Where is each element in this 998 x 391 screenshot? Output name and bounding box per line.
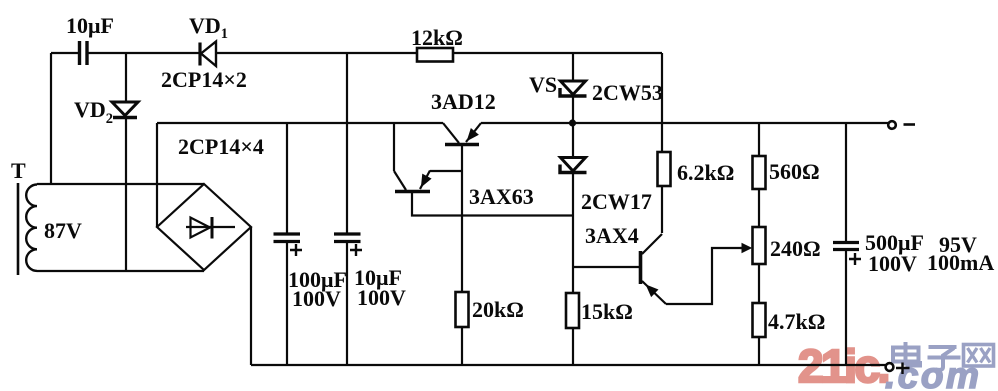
diode VD2 bbox=[112, 102, 138, 118]
wire second bus right segment bbox=[481, 122, 890, 124]
wire zener 2CW17 to base node bbox=[572, 173, 574, 293]
wire 4.7k to bottom bus bbox=[758, 337, 760, 365]
wire bus corner to bridge left bbox=[156, 123, 158, 227]
wire cap10 vertical top bbox=[346, 53, 348, 233]
wire cap10 bottom bbox=[346, 243, 348, 365]
svg-text:6.2kΩ: 6.2kΩ bbox=[677, 160, 734, 185]
potentiometer 240 bbox=[753, 227, 766, 264]
svg-text:240Ω: 240Ω bbox=[770, 236, 821, 261]
wire 3AD12 base down to 20k bbox=[461, 145, 463, 292]
wire 15k to bottom bus bbox=[572, 328, 574, 365]
wire cap100 top bbox=[286, 123, 288, 233]
svg-text:3AD12: 3AD12 bbox=[431, 89, 496, 114]
plus sign bbox=[896, 363, 910, 375]
wire 20k to bottom bus bbox=[461, 327, 463, 365]
svg-text:100V: 100V bbox=[868, 251, 917, 276]
wire 3AX4 emitter path bbox=[666, 248, 746, 304]
wire bottom bus bbox=[251, 364, 890, 366]
watermark char 电 bbox=[893, 342, 920, 366]
svg-text:100V: 100V bbox=[292, 286, 341, 311]
resistor 4.7k bbox=[753, 303, 766, 337]
zener VS 2CW53 bbox=[560, 81, 587, 96]
svg-text:4.7kΩ: 4.7kΩ bbox=[768, 309, 825, 334]
bridge rectifier 2CP14x4 bbox=[157, 184, 251, 270]
svg-text:10μF: 10μF bbox=[66, 13, 114, 38]
watermark char 网 bbox=[964, 345, 994, 367]
capacitor 500uF plus bbox=[849, 253, 861, 265]
capacitor 100uF plus bbox=[290, 244, 302, 256]
svg-text:100mA: 100mA bbox=[927, 250, 994, 275]
svg-text:12kΩ: 12kΩ bbox=[411, 25, 463, 50]
wire 560 to 240 pot bbox=[758, 189, 760, 227]
resistor 15k bbox=[566, 293, 579, 328]
resistor 12k bbox=[417, 48, 453, 62]
wire 3AX63 collector vertical bbox=[393, 123, 395, 171]
wire top bus left bbox=[51, 52, 78, 54]
junction dot bbox=[569, 119, 576, 126]
resistor 560 bbox=[753, 156, 766, 189]
capacitor 500uF plates bbox=[833, 243, 859, 250]
svg-text:2CP14×4: 2CP14×4 bbox=[178, 134, 264, 159]
resistor 6.2k bbox=[658, 152, 671, 186]
transistor Q1 3AD12 bbox=[443, 123, 481, 145]
resistor 20k bbox=[456, 292, 469, 327]
wire 500uF top bbox=[845, 124, 847, 242]
svg-text:15kΩ: 15kΩ bbox=[581, 299, 633, 324]
output terminal plus bbox=[886, 363, 894, 371]
wire top bus 12k to corner bbox=[453, 52, 662, 54]
svg-text:2CW17: 2CW17 bbox=[581, 189, 652, 214]
svg-text:VD2: VD2 bbox=[74, 97, 113, 127]
wire second bus left segment bbox=[157, 122, 443, 124]
wire 240 pot to 4.7k bbox=[758, 264, 760, 303]
capacitor 10uF filter plates bbox=[334, 234, 361, 242]
capacitor 10uF filter plus bbox=[350, 244, 362, 256]
transformer T core bbox=[17, 183, 20, 275]
svg-text:VS: VS bbox=[529, 72, 557, 97]
wire top right corner down bbox=[661, 53, 663, 152]
wire 3AX4 base bbox=[573, 266, 639, 268]
svg-text:100V: 100V bbox=[357, 285, 406, 310]
capacitor 100uF plates bbox=[274, 234, 301, 242]
svg-text:3AX4: 3AX4 bbox=[585, 223, 639, 248]
wire 6.2k to 3AX4 collector bbox=[661, 185, 663, 233]
wire top bus VD1 to 12k bbox=[216, 52, 417, 54]
svg-text:20kΩ: 20kΩ bbox=[472, 297, 524, 322]
svg-text:.com: .com bbox=[885, 355, 981, 391]
wire bridge right corner down bbox=[250, 227, 252, 365]
watermark char 子 bbox=[928, 347, 961, 370]
output terminal minus bbox=[888, 121, 896, 129]
svg-text:560Ω: 560Ω bbox=[769, 159, 820, 184]
wire 560 branch top bbox=[758, 124, 760, 156]
svg-text:87V: 87V bbox=[44, 218, 82, 243]
transistor Q3 3AX4 bbox=[641, 234, 752, 304]
wire cap100 bottom bbox=[286, 243, 288, 365]
wire VD2 branch vertical bbox=[125, 53, 127, 101]
capacitor 10uF coupling bbox=[80, 41, 88, 65]
svg-text:2CW53: 2CW53 bbox=[592, 80, 663, 105]
wire VD2 to transformer bottom bbox=[125, 119, 127, 271]
svg-text:VD1: VD1 bbox=[189, 13, 228, 42]
svg-text:2CP14×2: 2CP14×2 bbox=[161, 67, 247, 92]
transistor Q2 3AX63 bbox=[394, 171, 431, 192]
wire 3AX63 emitter horizontal bbox=[430, 170, 462, 172]
svg-text:T: T bbox=[11, 158, 26, 183]
svg-text:3AX63: 3AX63 bbox=[469, 184, 534, 209]
wire zener VS to dot bbox=[572, 97, 574, 157]
wire 3AX63 base lead bbox=[412, 192, 573, 216]
wire transformer top lead bbox=[37, 183, 204, 185]
wire zener branch top bbox=[572, 53, 574, 80]
wire left edge vertical bbox=[50, 53, 52, 184]
wire 500uF bottom bbox=[845, 250, 847, 365]
minus sign bbox=[904, 123, 916, 126]
zener 2CW17 bbox=[560, 158, 587, 173]
wire top bus cap to VD1 bbox=[88, 52, 199, 54]
transformer coil bbox=[26, 185, 37, 271]
diode VD1 bbox=[200, 42, 216, 67]
wire transformer bottom lead bbox=[37, 270, 204, 272]
